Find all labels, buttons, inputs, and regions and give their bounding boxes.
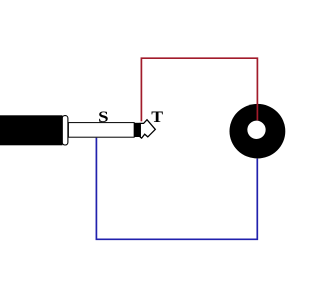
label T (tip) <box>151 108 163 126</box>
insulator ring <box>134 123 141 137</box>
speaker LS1 (voice-coil / magnet front view) <box>230 104 286 159</box>
svg-text:T: T <box>151 108 163 126</box>
plug collar (white band) <box>62 116 68 145</box>
svg-text:S: S <box>98 109 108 126</box>
tip T (arrow-shaped plug tip) <box>140 120 155 138</box>
plug body (handle) <box>0 115 63 145</box>
wire (red: tip to speaker) <box>141 58 257 121</box>
sleeve shaft S <box>68 123 134 138</box>
label S (sleeve) <box>98 109 108 126</box>
wire (blue: sleeve to speaker) <box>96 138 257 240</box>
